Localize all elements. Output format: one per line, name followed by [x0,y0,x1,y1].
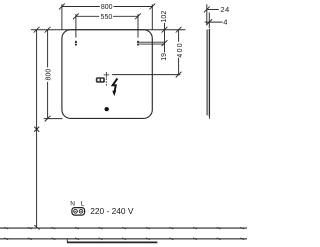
top extension line (mirror top edge extended both sides) [31,29,186,31]
svg-text:800: 800 [45,69,52,81]
svg-text:102: 102 [161,11,168,23]
bottom extension line from mirror bottom edge [44,118,63,120]
floor level line 1 [0,227,247,229]
dimension 24 depth [204,7,219,13]
dimension 4 glass [205,19,223,25]
connector floor line2 to lower line [66,239,68,242]
dashed centreline below cross [105,78,107,85]
svg-text:400: 400 [177,42,184,58]
X mark [34,127,39,132]
leader line from connection point [112,74,180,76]
hanger level double reference lines going right [139,42,165,44]
dimension 550 horizontal [73,13,141,19]
svg-text:550: 550 [101,14,113,21]
mirror side profile [207,29,210,119]
svg-text:L: L [81,200,85,207]
dimension 400 vertical line [176,27,182,78]
socket icon [72,208,85,216]
left vertical dimension 800 [45,27,51,122]
variable height X line [34,27,40,230]
junction box icon [96,77,105,83]
svg-text:800: 800 [101,4,113,11]
svg-text:220 - 240 V: 220 - 240 V [90,206,134,216]
thick lower line under floor [67,241,157,243]
dimension 102 / 19 vertical line [162,23,168,52]
floor level line 2 [0,238,247,240]
sensor dot on mirror [105,107,109,111]
left hanger bracket extension (dashed into mirror) [75,14,77,46]
svg-text:4: 4 [223,17,227,26]
svg-text:N: N [70,200,75,207]
mirror front view outline [62,30,152,119]
floor level line 2 hatch ticks [4,238,244,240]
lightning bolt electrical symbol [112,78,117,96]
side view extension lines [207,4,210,28]
dimension 800 top horizontal [59,4,155,30]
svg-text:19: 19 [161,53,168,61]
svg-text:24: 24 [220,5,229,14]
floor level line 1 hatch ticks [4,227,244,229]
right hanger bracket extension (dashed into mirror) [137,14,139,46]
connection point cross [104,72,110,78]
